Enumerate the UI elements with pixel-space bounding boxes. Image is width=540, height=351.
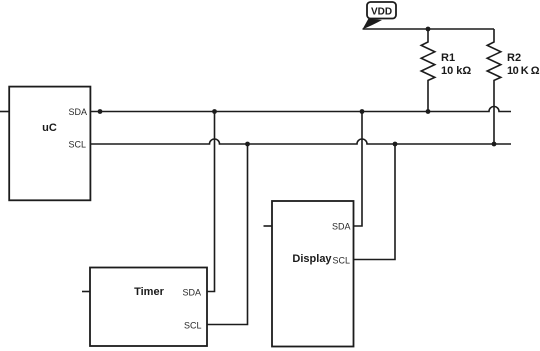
wire VDD rail [363,28,495,30]
svg-text:SDA: SDA [68,107,87,117]
wire Timer SCL to bus [207,144,248,325]
svg-text:R1: R1 [441,52,455,64]
svg-text:Display: Display [292,253,332,265]
Display box U3 [272,201,354,347]
VDD callout tail [363,19,383,30]
node Display SCL junction [393,142,398,147]
svg-text:VDD: VDD [371,7,392,18]
wire Display SCL to bus [354,144,396,260]
wire Timer left stub [82,291,90,293]
wire SDA bus [90,107,511,112]
node Timer SDA junction [212,109,217,114]
wire Display left stub [264,225,273,227]
node R1 VDD junction [426,27,431,32]
node R2 SCL junction [492,142,497,147]
svg-text:SDA: SDA [332,222,351,232]
wire uC left stub [0,111,9,113]
wire Timer SDA to bus [207,112,215,292]
node Display SDA junction [360,109,365,114]
wire SCL bus [90,139,511,144]
svg-text:10 kΩ: 10 kΩ [441,65,471,77]
svg-text:R2: R2 [507,52,521,64]
node R1 SDA junction [426,109,431,114]
uC box U1 [9,87,90,201]
svg-text:SDA: SDA [182,288,201,298]
VDD callout bubble [367,2,396,19]
Timer box U2 [90,268,207,347]
resistor R2 [487,29,501,144]
svg-text:SCL: SCL [184,321,202,331]
node Timer SCL junction [245,142,250,147]
svg-text:SCL: SCL [68,140,86,150]
svg-text:uC: uC [42,122,57,134]
resistor R1 [421,29,435,112]
svg-text:10 K Ω: 10 K Ω [507,65,540,77]
wire Display SDA to bus [354,112,363,227]
svg-text:Timer: Timer [134,286,164,298]
svg-text:SCL: SCL [332,256,350,266]
node uC SDA pin [98,109,103,114]
